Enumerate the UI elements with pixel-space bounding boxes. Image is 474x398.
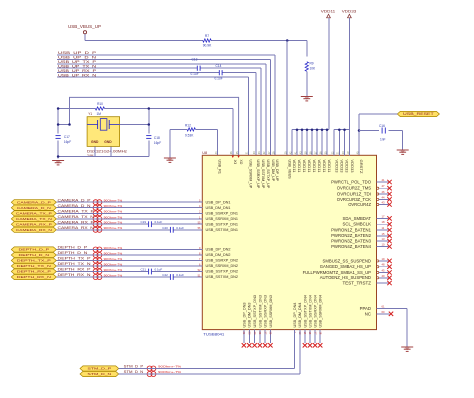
svg-text:VDD11: VDD11	[297, 160, 301, 173]
svg-text:USB_DM_DN3: USB_DM_DN3	[248, 302, 252, 327]
svg-text:19: 19	[382, 257, 385, 261]
svg-text:VDD11: VDD11	[312, 160, 316, 173]
net label USB_UP_RX_N	[58, 73, 97, 77]
wire USB_VBUS net	[85, 34, 307, 41]
port CAMERA_TX_P	[11, 211, 56, 216]
svg-text:VDD11: VDD11	[327, 160, 331, 173]
wire crystal ground return	[57, 146, 149, 157]
net label USB_UP_TX_P	[58, 60, 97, 64]
U8 bottom pin stubs DN3 no-connect	[242, 330, 273, 348]
svg-text:STM_D_N: STM_D_N	[87, 372, 111, 376]
op-chip U8 TUSB8041 body	[202, 155, 376, 329]
svg-text:0.1uF: 0.1uF	[176, 273, 184, 277]
svg-text:GND: GND	[104, 140, 112, 144]
wire DEPTH_D_N	[56, 254, 202, 256]
svg-text:60: 60	[382, 310, 385, 314]
net label USB_UP_TX_N	[58, 64, 97, 68]
svg-text:USB_DM_UP: USB_DM_UP	[271, 160, 275, 182]
resistor R12 9.53K	[185, 123, 195, 137]
svg-text:40: 40	[382, 274, 385, 278]
capacitor C20 0.1uF	[162, 226, 184, 233]
svg-text:USB_SSTXM_DN1: USB_SSTXM_DN1	[206, 228, 239, 232]
svg-text:USB_SSRXP_DN4: USB_SSRXP_DN4	[314, 295, 318, 328]
svg-text:16pF: 16pF	[64, 140, 71, 144]
port DEPTH_RX_P	[11, 269, 56, 274]
U8 left pin numbers	[198, 199, 201, 278]
wire DEPTH_D_P	[56, 249, 202, 251]
svg-text:NC: NC	[365, 312, 371, 317]
diff pair symbol DEPTH_RX_P	[93, 269, 102, 274]
svg-text:USB_DM_DN4: USB_DM_DN4	[298, 302, 302, 327]
port STM_D_N	[80, 371, 119, 376]
wire CAMERA_TX_P	[56, 212, 202, 214]
value TUSB8041	[203, 332, 225, 337]
wire crystal left vertical	[58, 109, 69, 159]
wire crystal right vertical	[120, 109, 149, 157]
power port VDD33	[342, 8, 357, 17]
svg-text:SCL_SMBCLK: SCL_SMBCLK	[343, 222, 372, 227]
svg-text:USB_SSTXP_DN3: USB_SSTXP_DN3	[253, 295, 257, 328]
svg-text:10K: 10K	[310, 67, 317, 71]
wire R12 right to USB_R1	[195, 129, 217, 155]
wire GRSTZ	[358, 114, 398, 155]
capacitor C16 1nF	[359, 124, 403, 142]
svg-text:C17: C17	[64, 135, 70, 139]
resistor R10 1M	[95, 102, 104, 110]
svg-text:USB_SSTXP_DN4: USB_SSTXP_DN4	[303, 295, 307, 328]
svg-text:CAMERA_TX_N: CAMERA_TX_N	[16, 217, 52, 221]
svg-text:PWRON1Z_BATEN1: PWRON1Z_BATEN1	[331, 227, 371, 232]
svg-text:STM_D_P: STM_D_P	[87, 367, 111, 371]
U8 left pin names DN2	[206, 248, 239, 280]
svg-text:USB_SSRXM_DN4: USB_SSRXM_DN4	[319, 295, 323, 328]
svg-text:VDD33: VDD33	[345, 160, 349, 173]
wire CAMERA_RX_N	[56, 229, 202, 231]
svg-text:48: 48	[382, 263, 385, 267]
svg-text:VDD11: VDD11	[317, 160, 321, 173]
diff pair symbol CAMERA_D_N	[93, 205, 102, 210]
wire USB_UP_TX_N	[57, 68, 261, 155]
wire CAMERA_TX_N	[56, 218, 202, 220]
wire R12 left to ground	[170, 129, 187, 157]
wire USB_UP_TX_P	[57, 64, 266, 156]
U8 bottom pin names DN4	[293, 295, 323, 328]
svg-text:CAMERA_TX_P: CAMERA_TX_P	[16, 212, 52, 216]
svg-text:17: 17	[382, 214, 385, 218]
svg-text:DEPTH_D_N: DEPTH_D_N	[19, 253, 50, 257]
svg-text:90.9K: 90.9K	[203, 43, 212, 47]
impedance label DEPTH_RX_N	[104, 273, 123, 277]
svg-text:VDD11: VDD11	[307, 160, 311, 173]
svg-text:CAMERA_RX_N: CAMERA_RX_N	[16, 228, 52, 232]
svg-text:USB_SSTXM_UP: USB_SSTXM_UP	[261, 160, 265, 190]
svg-text:R12: R12	[185, 123, 191, 127]
svg-text:VDD11: VDD11	[322, 160, 326, 173]
svg-text:CAMERA_D_P: CAMERA_D_P	[17, 200, 51, 204]
svg-text:VDD33: VDD33	[340, 160, 344, 173]
crystal Y1 box	[87, 117, 120, 147]
svg-text:1M: 1M	[97, 112, 102, 116]
ground C16	[397, 150, 409, 154]
svg-text:CAMERA_RX_N: CAMERA_RX_N	[58, 226, 95, 230]
svg-text:C18: C18	[154, 136, 160, 140]
svg-text:USB_SSTXM_DN2: USB_SSTXM_DN2	[206, 275, 239, 279]
svg-text:9.53K: 9.53K	[185, 133, 194, 137]
net label CAMERA_TX_P	[58, 209, 94, 213]
port DEPTH_D_P	[11, 247, 56, 252]
svg-text:SDA_SMBDAT: SDA_SMBDAT	[343, 216, 372, 221]
diff pair symbol CAMERA_RX_N	[93, 227, 102, 232]
svg-text:USB_DM_DN1: USB_DM_DN1	[206, 206, 231, 210]
net label DEPTH_TX_P	[58, 257, 91, 261]
svg-text:USB_SSRXP_DN1: USB_SSRXP_DN1	[206, 212, 239, 216]
svg-text:USB_R1: USB_R1	[218, 160, 222, 175]
port STM_D_P	[80, 366, 119, 371]
svg-text:DEPTH_TX_N: DEPTH_TX_N	[17, 264, 51, 268]
svg-text:GND: GND	[91, 140, 99, 144]
junctions VDD11 bus	[296, 128, 329, 131]
svg-text:R10: R10	[97, 102, 103, 106]
net label STM_D_P	[124, 365, 144, 369]
svg-text:47: 47	[382, 184, 385, 188]
capacitor C19 0.1uF	[141, 220, 163, 227]
capacitor C18 16pF	[146, 136, 161, 145]
U8 top pin names	[218, 160, 364, 190]
port DEPTH_D_N	[11, 252, 56, 257]
svg-text:0.1uF: 0.1uF	[191, 72, 199, 76]
svg-text:USB_VBUS: USB_VBUS	[287, 160, 291, 180]
impedance label DEPTH_TX_N	[104, 262, 123, 266]
svg-text:OVRCUR2Z_TMS: OVRCUR2Z_TMS	[337, 186, 371, 191]
svg-text:PWRON4Z_BATEN4: PWRON4Z_BATEN4	[331, 244, 371, 249]
net label STM_D_N	[124, 370, 144, 374]
svg-text:DEPTH_D_P: DEPTH_D_P	[19, 248, 50, 252]
diff pair symbol DEPTH_TX_N	[93, 264, 102, 269]
U8 bottom pin stubs DN4 no-connect	[303, 330, 323, 348]
svg-text:USB_SSTXP_DN2: USB_SSTXP_DN2	[206, 270, 239, 274]
svg-text:DEPTH_RX_P: DEPTH_RX_P	[17, 270, 51, 274]
svg-text:1nF: 1nF	[380, 138, 386, 142]
port CAMERA_RX_P	[11, 222, 56, 227]
svg-text:C16: C16	[379, 124, 385, 128]
svg-text:USB_SSTXP_UP: USB_SSTXP_UP	[266, 160, 270, 190]
svg-text:VDD11: VDD11	[321, 8, 336, 13]
net label USB_UP_RX_P	[58, 69, 97, 73]
ground R12	[164, 158, 176, 162]
svg-text:GRSTZ: GRSTZ	[359, 160, 363, 174]
svg-text:USB_SSTXM_DN3: USB_SSTXM_DN3	[258, 295, 262, 328]
svg-text:C22: C22	[162, 273, 168, 277]
svg-text:USB_SSTXP_DN1: USB_SSTXP_DN1	[206, 222, 239, 226]
diff pair symbol STM	[147, 366, 156, 377]
wire USB_UP_D_N	[57, 59, 271, 155]
diff pair symbol DEPTH_RX_N	[93, 275, 102, 280]
junction dots crystal left	[57, 107, 71, 126]
diff pair symbol DEPTH_TX_P	[93, 258, 102, 263]
U8 bottom pin names DN3	[242, 295, 272, 328]
net label USB_UP_D_P	[58, 51, 97, 55]
svg-text:USB_SSRXM_UP: USB_SSRXM_UP	[249, 160, 253, 190]
svg-text:VDD33: VDD33	[342, 8, 357, 13]
port CAMERA_D_N	[11, 205, 56, 210]
net label DEPTH_RX_N	[58, 273, 92, 277]
svg-text:TUSB8041: TUSB8041	[203, 332, 225, 337]
svg-text:USB_DP_DN3: USB_DP_DN3	[242, 302, 246, 327]
svg-text:R7: R7	[205, 34, 209, 38]
svg-text:45: 45	[382, 269, 385, 273]
svg-text:R9: R9	[310, 62, 314, 66]
impedance label CAMERA_RX_P	[104, 221, 123, 225]
U8 left pin names DN1	[206, 200, 239, 232]
impedance label CAMERA_TX_P	[104, 210, 123, 214]
wire USB_VBUS to chip pin	[286, 41, 288, 156]
U8 right pin names	[303, 179, 372, 285]
wire STM_D_N to USB_DM_DN4	[119, 330, 300, 374]
svg-text:FULLPWRMGMTZ_SMBA1_SS_UP: FULLPWRMGMTZ_SMBA1_SS_UP	[303, 270, 372, 275]
impedance label CAMERA_TX_N	[104, 215, 123, 219]
wire DEPTH_TX_P	[56, 260, 202, 262]
U8 right pin stubs and no-connects	[377, 178, 392, 285]
svg-text:USB_SSRXP_DN2: USB_SSRXP_DN2	[206, 259, 239, 263]
wire R9 to ground	[306, 71, 308, 96]
wire CAMERA_D_P	[56, 201, 202, 203]
svg-text:C14: C14	[216, 64, 222, 68]
svg-text:USB_RESET: USB_RESET	[403, 112, 434, 116]
svg-text:C21: C21	[141, 268, 147, 272]
diff pair symbol DEPTH_D_P	[93, 247, 102, 252]
svg-text:VDD11: VDD11	[292, 160, 296, 173]
net label DEPTH_TX_N	[58, 262, 92, 266]
wire DEPTH_TX_N	[56, 265, 202, 267]
port DEPTH_RX_N	[11, 274, 56, 279]
label DSX321G 24.00MHz	[87, 149, 127, 158]
pin NC no-connect	[377, 312, 394, 316]
svg-text:Y1: Y1	[88, 112, 92, 116]
wire VDD11 bus	[292, 130, 329, 156]
svg-text:DEPTH_TX_P: DEPTH_TX_P	[17, 259, 51, 263]
svg-text:CAMERA_D_N: CAMERA_D_N	[17, 206, 51, 210]
wire XO loop	[70, 97, 239, 155]
svg-text:43: 43	[382, 201, 385, 205]
label Y1 and 1M	[88, 112, 101, 116]
capacitor C17 16pF	[56, 135, 72, 144]
port DEPTH_TX_P	[11, 258, 56, 263]
svg-text:USB_SSRXP_UP: USB_SSRXP_UP	[256, 160, 260, 190]
svg-text:24M: 24M	[87, 154, 94, 158]
net label USB_UP_D_N	[58, 56, 97, 60]
net label DEPTH_RX_P	[58, 268, 91, 272]
wire VDD33 bus	[334, 130, 349, 156]
port CAMERA_RX_N	[11, 227, 56, 232]
wire XI net	[58, 109, 233, 156]
svg-text:USB_DM_DN2: USB_DM_DN2	[206, 253, 231, 257]
U8 top pin numbers	[215, 151, 360, 154]
ground below R9	[301, 97, 313, 101]
wire DEPTH_RX_P	[56, 271, 202, 273]
svg-text:VDD33: VDD33	[334, 160, 338, 173]
svg-text:PWRON2Z_BATEN2: PWRON2Z_BATEN2	[331, 233, 371, 238]
junction dots crystal right	[148, 107, 151, 126]
svg-text:USB_SSRXM_DN1: USB_SSRXM_DN1	[206, 217, 239, 221]
wire USB_UP_D_P	[57, 55, 275, 155]
diff pair symbol CAMERA_TX_P	[93, 211, 102, 216]
port USB_VBUS_UP	[68, 24, 101, 34]
pin arrows XI XO	[232, 156, 240, 158]
wire CAMERA_RX_P	[56, 223, 202, 225]
svg-text:VDD11: VDD11	[302, 160, 306, 173]
junctions VDD33 bus	[338, 128, 346, 131]
svg-text:10: 10	[382, 243, 385, 247]
capacitor C22 0.1uF	[162, 273, 184, 280]
ground crystal	[52, 161, 64, 165]
wire VDD33	[349, 18, 351, 130]
impedance labels STM	[158, 365, 181, 375]
svg-text:USB_VBUS_UP: USB_VBUS_UP	[68, 24, 101, 29]
junction on VBUS wire	[286, 39, 289, 42]
svg-text:USB_DP_DN2: USB_DP_DN2	[206, 248, 231, 252]
svg-text:USB_SSTXM_DN4: USB_SSTXM_DN4	[308, 295, 312, 328]
wire PPAD to ground	[377, 309, 408, 347]
svg-text:18: 18	[382, 220, 385, 224]
capacitor C14 0.1uF	[215, 64, 223, 81]
svg-text:PPAD: PPAD	[360, 306, 371, 311]
svg-text:13: 13	[382, 237, 385, 241]
impedance label DEPTH_RX_P	[104, 268, 123, 272]
svg-text:CAMERA_TX_P: CAMERA_TX_P	[58, 209, 94, 213]
svg-text:46: 46	[382, 190, 385, 194]
wire STM_D_P to USB_DP_DN4	[119, 330, 295, 369]
ground PPAD	[401, 347, 413, 351]
svg-text:0.1uF: 0.1uF	[176, 226, 184, 230]
power port VDD11	[321, 8, 336, 17]
capacitor C13 0.1uF	[191, 58, 201, 76]
impedance label CAMERA_D_P	[104, 199, 123, 203]
svg-text:OVRCUR4Z: OVRCUR4Z	[348, 202, 371, 207]
diff pair symbol DEPTH_D_N	[93, 253, 102, 258]
svg-text:U8: U8	[202, 151, 207, 155]
svg-text:DSX321G24.00MHz: DSX321G24.00MHz	[87, 149, 127, 153]
svg-text:PWRCTL_POL_TDO: PWRCTL_POL_TDO	[331, 179, 372, 184]
wire USB_UP_RX_N	[57, 77, 248, 155]
wire USB_UP_RX_P	[57, 73, 256, 156]
impedance label DEPTH_D_P	[104, 246, 123, 250]
net label CAMERA_RX_P	[58, 220, 94, 224]
svg-text:GANGED_SMBA2_HS_UP: GANGED_SMBA2_HS_UP	[320, 264, 371, 269]
U8 bottom pin numbers	[242, 332, 322, 335]
wire VDD11	[328, 18, 330, 130]
diff pair symbol CAMERA_D_P	[93, 200, 102, 205]
impedance label CAMERA_D_N	[104, 204, 123, 208]
svg-text:16pF: 16pF	[154, 141, 161, 145]
svg-text:C19: C19	[141, 220, 147, 224]
net label DEPTH_D_P	[58, 246, 88, 250]
svg-text:CAMERA_RX_P: CAMERA_RX_P	[16, 222, 52, 226]
net label CAMERA_D_P	[58, 198, 91, 202]
port CAMERA_D_P	[11, 200, 56, 205]
svg-text:XI: XI	[233, 160, 237, 165]
svg-text:PWRON3Z_BATEN3: PWRON3Z_BATEN3	[331, 239, 371, 244]
svg-text:44: 44	[382, 195, 385, 199]
wire CAMERA_D_N	[56, 207, 202, 209]
svg-text:0.1uF: 0.1uF	[155, 268, 163, 272]
wire to R9	[306, 41, 308, 57]
diff pair symbol CAMERA_RX_P	[93, 222, 102, 227]
net label DEPTH_D_N	[58, 251, 89, 255]
svg-text:15: 15	[382, 232, 385, 236]
svg-text:USB_SSRXP_DN3: USB_SSRXP_DN3	[264, 295, 268, 328]
port DEPTH_TX_N	[11, 263, 56, 268]
svg-text:DEPTH_RX_N: DEPTH_RX_N	[17, 275, 51, 279]
svg-text:USB_SSRXM_DN3: USB_SSRXM_DN3	[269, 295, 273, 328]
resistor R7 90.9K	[203, 34, 212, 47]
impedance label DEPTH_TX_P	[104, 257, 123, 261]
svg-text:41: 41	[382, 178, 385, 182]
wire C16 to ground	[402, 131, 404, 150]
port CAMERA_TX_N	[11, 216, 56, 221]
impedance label CAMERA_RX_N	[104, 226, 123, 230]
designator U8	[202, 151, 207, 155]
svg-text:USB_SSRXM_DN2: USB_SSRXM_DN2	[206, 264, 239, 268]
net label CAMERA_TX_N	[58, 215, 95, 219]
svg-text:XO: XO	[239, 160, 243, 165]
svg-text:USB_DP_UP: USB_DP_UP	[275, 160, 279, 182]
impedance label DEPTH_D_N	[104, 251, 123, 255]
svg-text:USB_DP_DN1: USB_DP_DN1	[206, 200, 231, 204]
port USB_RESET	[397, 111, 439, 116]
svg-text:OVRCUR1Z_TDI: OVRCUR1Z_TDI	[337, 191, 371, 196]
svg-text:VDD33: VDD33	[350, 160, 354, 173]
svg-text:TEST_TRSTZ: TEST_TRSTZ	[343, 280, 372, 285]
svg-text:0.1uF: 0.1uF	[155, 220, 163, 224]
resistor R9 10K	[305, 62, 316, 72]
svg-text:C13: C13	[192, 58, 198, 62]
diff pair symbol CAMERA_TX_N	[93, 216, 102, 221]
svg-text:USB_DP_DN4: USB_DP_DN4	[293, 302, 297, 327]
capacitor C21 0.1uF	[141, 268, 163, 275]
wire DEPTH_RX_N	[56, 276, 202, 278]
net label CAMERA_D_N	[58, 204, 92, 208]
net label CAMERA_RX_N	[58, 226, 95, 230]
svg-text:0.1uF: 0.1uF	[215, 76, 223, 80]
svg-text:SMBUSZ_SS_SUSPEND: SMBUSZ_SS_SUSPEND	[323, 258, 371, 263]
svg-text:C20: C20	[162, 226, 168, 230]
U8 pin PPAD	[360, 305, 385, 317]
